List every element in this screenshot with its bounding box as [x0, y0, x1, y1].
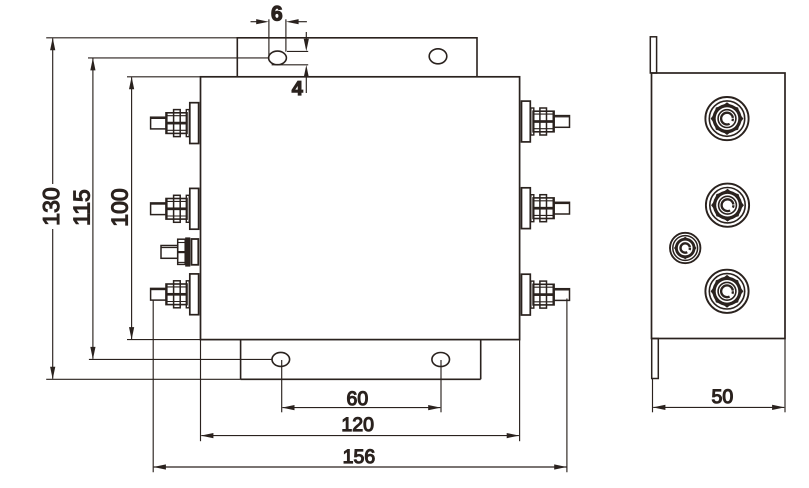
- dimension 115 line: [92, 59, 94, 359]
- terminal L2: [151, 188, 199, 229]
- dimension 4 extension top: [287, 50, 308, 52]
- terminal R2: [522, 188, 570, 229]
- side view bottom flange tab: [652, 339, 659, 379]
- svg-text:130: 130: [38, 187, 64, 225]
- dimension 156 line: [154, 466, 567, 468]
- dimension 50 extension right: [784, 339, 786, 413]
- side connector C2: [706, 184, 749, 227]
- dimension 6 extension left: [268, 19, 270, 58]
- dimension 4 extension bottom: [272, 64, 309, 66]
- dimension 6 line right arrow: [297, 21, 307, 23]
- side connector C1: [705, 97, 748, 140]
- dimension 120 line: [201, 435, 519, 437]
- svg-text:50: 50: [712, 386, 734, 408]
- svg-text:6: 6: [271, 2, 283, 25]
- dimension 4 top arrow: [305, 32, 307, 40]
- top flange slot: [269, 51, 287, 65]
- side connector C3 small: [670, 233, 700, 263]
- dimension 60 line: [282, 407, 440, 409]
- top flange hole: [429, 49, 447, 64]
- bottom flange hole left: [272, 352, 290, 366]
- dimension 100 line: [131, 77, 133, 339]
- dimension 115 extension top: [88, 57, 269, 59]
- svg-text:100: 100: [106, 188, 132, 226]
- bottom mounting flange: [241, 340, 481, 380]
- svg-text:60: 60: [347, 388, 369, 410]
- terminal R3: [522, 274, 570, 315]
- terminal L4: [151, 274, 199, 315]
- terminal R1: [522, 101, 570, 142]
- dimension 6 line left arrow: [251, 21, 259, 23]
- svg-text:4: 4: [292, 78, 304, 100]
- dimension 120 extension right: [519, 340, 521, 442]
- bottom flange hole right: [432, 353, 450, 367]
- svg-text:156: 156: [343, 446, 376, 468]
- dimension 50 line: [653, 406, 784, 408]
- dimension 100 extension top: [127, 76, 201, 78]
- top mounting flange: [237, 38, 477, 77]
- dimension 130 line: [52, 38, 54, 378]
- dimension 4 bottom arrow: [305, 77, 307, 93]
- dimension 60 extension left: [281, 360, 283, 412]
- svg-text:115: 115: [69, 189, 95, 226]
- dimension 115 extension bottom: [89, 358, 272, 360]
- side connector C4: [705, 270, 748, 313]
- dimension 156 extension right: [566, 299, 568, 473]
- dimension 130 extension bottom: [46, 378, 240, 380]
- side view top flange tab: [650, 37, 656, 73]
- dimension 156 extension left: [152, 300, 154, 473]
- dimension 130 extension top: [46, 37, 237, 39]
- terminal L3 small: [161, 237, 198, 266]
- terminal L1: [151, 103, 199, 144]
- dimension 6 extension right: [285, 19, 287, 51]
- dimension 120 extension left: [200, 340, 202, 442]
- dimension 50 extension left: [652, 379, 654, 413]
- dimension 60 extension right: [440, 360, 442, 412]
- svg-text:120: 120: [341, 414, 374, 436]
- dimension 100 extension bottom: [127, 339, 201, 341]
- side view body: [652, 73, 786, 339]
- front view body: [201, 77, 520, 340]
